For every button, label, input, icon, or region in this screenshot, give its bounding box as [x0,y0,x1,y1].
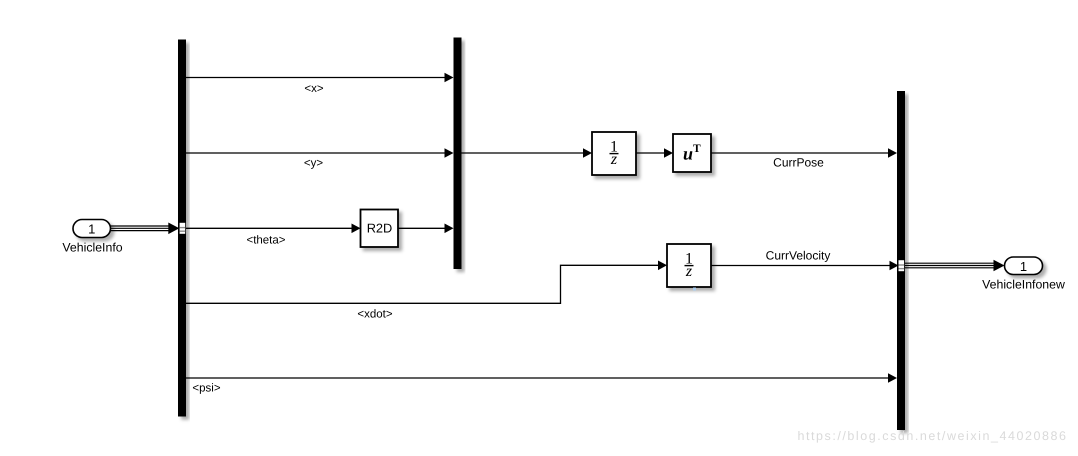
wire x from Bus1 to Bus2 [186,77,446,79]
bus creator bar Bus2 [454,38,462,270]
svg-text:VehicleInfo: VehicleInfo [62,241,122,255]
bus wire Bus3 to Out1 [905,263,996,268]
sample time marker [693,288,696,291]
svg-text:R2D: R2D [367,221,393,236]
wire R2D to Bus2 [398,227,446,229]
wire Unit Delay1 to Bus3 CurrVelocity [711,265,891,267]
input port In1 [73,220,111,238]
svg-text:<xdot>: <xdot> [357,309,392,321]
svg-text:CurrPose: CurrPose [773,156,824,170]
svg-text:<x>: <x> [304,83,323,95]
block Math Function uT [673,134,711,172]
bus wire In1 to Bus1 [111,226,171,231]
output port Out1 [1005,257,1043,275]
wire psi from Bus1 to Bus3 [186,377,889,379]
svg-text:<psi>: <psi> [192,383,220,395]
svg-text:T: T [693,143,701,155]
svg-text:VehicleInfonew: VehicleInfonew [982,278,1065,292]
bus arrowhead into Out1 [994,260,1005,272]
bus selector bar Bus1 [178,40,186,417]
svg-text:z: z [685,263,693,280]
block Unit Delay 1/z [592,132,636,175]
svg-text:u: u [683,144,693,164]
wire theta from Bus1 to R2D [186,227,353,229]
svg-text:<theta>: <theta> [246,235,285,247]
wire uT to Bus3 CurrPose [711,152,889,154]
svg-text:https://blog.csdn.net/weixin_4: https://blog.csdn.net/weixin_44020886 [798,429,1068,443]
svg-text:<y>: <y> [304,158,323,170]
port badge on Bus3 [899,260,905,271]
svg-text:z: z [610,151,618,168]
wire xdot from Bus1 to Unit Delay1 [186,265,659,303]
block Unit Delay1 1/z [667,244,711,287]
wire Bus2 to Unit Delay [462,152,585,154]
svg-text:1: 1 [88,222,95,237]
wire y from Bus1 to Bus2 [186,152,446,154]
block R2D (Radians to Degrees) [361,210,399,248]
port badge on Bus1 [180,223,186,234]
bus arrowhead into Bus1 [168,223,179,235]
wire Unit Delay to Math Function [636,152,665,154]
svg-text:1: 1 [1020,259,1027,274]
svg-text:CurrVelocity: CurrVelocity [766,249,831,263]
bus creator bar Bus3 [897,91,905,430]
